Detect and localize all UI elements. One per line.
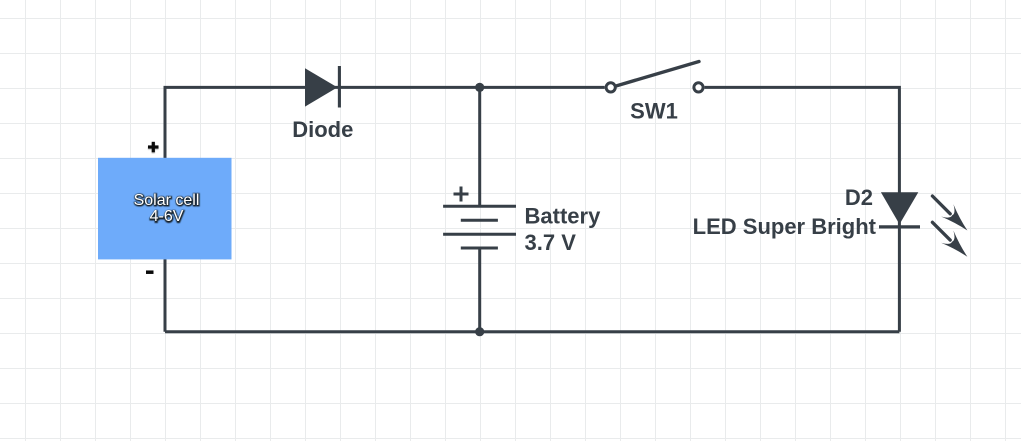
LED light emission arrow 1 [932,196,967,231]
wire: top net from solar cell + to diode anode and switch [165,87,605,331]
label: SW1 [630,99,678,124]
node: junction at battery top [475,83,484,92]
node: junction at battery bottom [475,327,484,336]
svg-text:Battery: Battery [525,203,602,228]
battery plus polarity mark [454,187,469,202]
battery BT1 symbol (two cells) [443,206,516,248]
svg-text:SW1: SW1 [630,99,678,124]
label: LED Super Bright [693,214,877,239]
label: Diode [292,117,353,142]
svg-text:D2: D2 [845,185,873,210]
node: solar cell - terminal [146,270,154,274]
svg-text:LED Super Bright: LED Super Bright [693,214,877,239]
svg-text:4-6V: 4-6V [150,208,184,225]
node: solar cell + terminal [148,142,159,153]
wire: battery branch upper segment [478,87,481,206]
label: D2 [845,185,873,210]
svg-text:Diode: Diode [292,117,353,142]
LED light emission arrow 2 [932,222,967,256]
LED D2 symbol [879,192,920,227]
label: Battery 3.7 V [525,203,602,254]
solar cell PV1 [98,158,232,260]
wire: switch to top-right corner down to LED [705,87,900,331]
wire: battery branch lower segment [478,248,481,332]
wire: bottom return net [165,330,899,333]
label: Solar cell 4-6V [134,192,200,226]
svg-text:Solar cell: Solar cell [134,192,200,209]
svg-text:3.7 V: 3.7 V [525,230,577,255]
diode D1 symbol [305,66,339,108]
switch SW1 symbol [606,62,703,93]
